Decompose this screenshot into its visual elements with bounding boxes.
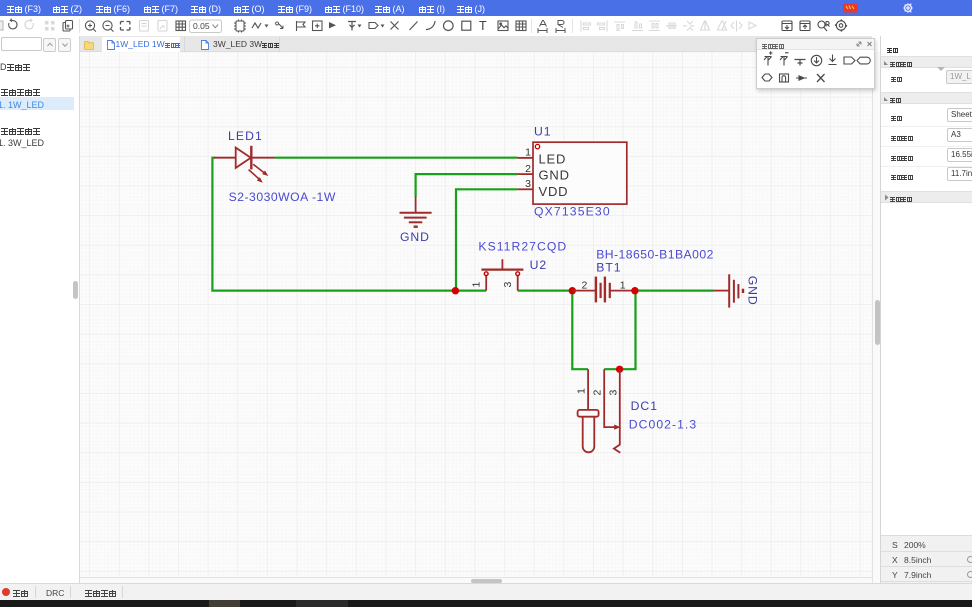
wire U1 pin 3 (VDD) down to node A [456,189,518,290]
svg-text:0.05: 0.05 [193,21,210,31]
svg-text:T: T [479,19,487,33]
DC barrel jack DC1 DC002-1.3 [578,369,621,453]
wire LED cathode to U1 pin 1 [275,157,518,159]
wire switch pin 3 to battery node B [518,290,573,292]
floating tools panel [756,38,875,89]
junction node C [631,287,638,294]
wire battery pin 1 to GND [635,290,714,292]
menu bar [0,0,972,16]
ground symbol GND (right, rotated) [714,274,744,307]
right properties panel [880,36,972,583]
canvas [80,52,872,577]
wire node B down to DC1 pin 1 [572,291,588,370]
ground symbol GND (left) [400,197,432,227]
pushbutton switch U2 KS11R27CQD [481,259,523,290]
junction node D (DC1 pin3) [616,366,623,373]
junction node A [452,287,459,294]
battery BT1 BH-18650-B1BA002 [572,277,635,303]
tab bar [80,36,872,52]
wire node A to switch pin 1 [455,290,486,292]
toolbar [0,16,972,36]
LED LED1 symbol [214,146,275,179]
junction node B [569,287,576,294]
task bar [0,600,972,607]
wire U1 pin 2 to ground [416,174,518,197]
left sidebar [0,36,80,583]
wire DC1 pin 2 / pin 3 up to battery pin 1 node C [604,291,635,370]
wire net LED anode: left vertical + bottom run to junction A [212,158,455,291]
op-amp-style IC U1 QX7135E30 [518,142,627,204]
status bar [0,583,972,600]
